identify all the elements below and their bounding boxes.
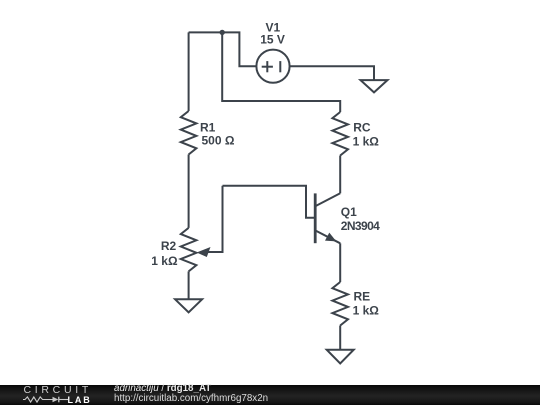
svg-text:15 V: 15 V: [260, 33, 285, 47]
footer url line: [114, 394, 268, 404]
svg-text:1 kΩ: 1 kΩ: [353, 135, 380, 149]
CircuitLab logo squiggle (resistor + diode): [23, 396, 68, 403]
resistor RE: [332, 282, 348, 326]
svg-text:1 kΩ: 1 kΩ: [151, 254, 178, 268]
wire: [188, 271, 190, 299]
wire: [290, 66, 374, 80]
wire: [222, 32, 340, 112]
svg-text:500 Ω: 500 Ω: [202, 134, 235, 148]
voltage source V1: [256, 50, 289, 83]
svg-text:RC: RC: [353, 120, 371, 134]
footer author line: [114, 384, 211, 394]
ground: [361, 80, 388, 92]
potentiometer R2: [181, 228, 197, 272]
svg-text:R1: R1: [200, 120, 216, 134]
CircuitLab logo wordmark: [24, 384, 92, 396]
potentiometer R2 wiper arrow: [197, 247, 211, 257]
resistor RC: [332, 112, 348, 156]
wire: [188, 155, 190, 228]
wire: [189, 32, 257, 66]
ground: [327, 350, 354, 364]
wire base: [223, 186, 315, 218]
ground: [175, 299, 202, 312]
svg-text:RE: RE: [354, 289, 371, 303]
transistor Q1: [315, 193, 340, 243]
svg-text:2N3904: 2N3904: [341, 219, 380, 233]
svg-text:R2: R2: [161, 239, 177, 253]
svg-text:1 kΩ: 1 kΩ: [353, 303, 380, 317]
node junction: [220, 30, 225, 35]
wire: [339, 326, 341, 350]
wire: [339, 243, 341, 282]
CircuitLab logo LAB: [68, 395, 92, 405]
wire wiper: [204, 186, 223, 252]
wire: [339, 156, 341, 194]
wire: [188, 32, 190, 111]
svg-text:Q1: Q1: [341, 205, 357, 219]
resistor R1: [181, 111, 197, 155]
